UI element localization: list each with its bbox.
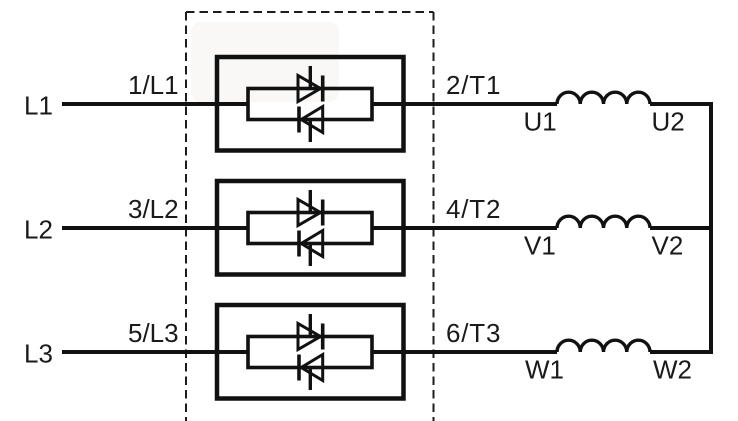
thyristor Q4 reverse: [299, 231, 323, 267]
svg-text:3/L2: 3/L2: [128, 194, 179, 224]
thyristor Q1 forward: [298, 66, 323, 102]
thyristor Q2 reverse: [299, 107, 323, 143]
soft starter dashed enclosure left edge: [185, 12, 187, 421]
svg-text:L2: L2: [24, 215, 53, 245]
wire U2 to star bus: [650, 102, 713, 106]
svg-text:2/T1: 2/T1: [446, 70, 501, 100]
wire W2 to star bus: [650, 350, 713, 354]
wire L3 input: [62, 350, 248, 354]
thyristor module box phase 3: [217, 305, 404, 399]
thyristor module box phase 1: [217, 57, 404, 151]
wire module T1 output: [372, 102, 557, 106]
svg-text:1/L1: 1/L1: [128, 70, 179, 100]
star point bus: [709, 102, 713, 354]
svg-text:W1: W1: [525, 355, 564, 385]
wire L1 input: [62, 102, 248, 106]
thyristor module box phase 2: [217, 181, 404, 275]
svg-text:5/L3: 5/L3: [128, 318, 179, 348]
svg-text:6/T3: 6/T3: [446, 318, 501, 348]
svg-text:U1: U1: [524, 107, 557, 137]
SCR pair frame phase 2: [248, 213, 372, 244]
svg-text:W2: W2: [653, 355, 692, 385]
SCR pair frame phase 3: [248, 337, 372, 368]
SCR pair frame phase 1: [248, 89, 372, 120]
thyristor Q3 forward: [298, 190, 323, 226]
motor winding U (inductor): [557, 92, 650, 104]
faint watermark wash: [191, 22, 339, 102]
svg-text:V2: V2: [652, 231, 684, 261]
thyristor Q6 reverse: [299, 355, 323, 391]
wire V2 to star bus: [650, 226, 713, 230]
svg-text:4/T2: 4/T2: [446, 194, 501, 224]
soft starter dashed enclosure right edge: [433, 12, 435, 421]
wire L2 input: [62, 226, 248, 230]
motor winding V (inductor): [557, 216, 650, 228]
wire module T3 output: [372, 350, 557, 354]
thyristor Q5 forward: [298, 314, 323, 350]
svg-text:L1: L1: [24, 91, 53, 121]
wire module T2 output: [372, 226, 557, 230]
svg-text:V1: V1: [524, 231, 556, 261]
motor winding W (inductor): [557, 340, 650, 352]
svg-text:U2: U2: [652, 107, 685, 137]
soft starter dashed enclosure top edge: [186, 11, 434, 13]
svg-text:L3: L3: [24, 339, 53, 369]
